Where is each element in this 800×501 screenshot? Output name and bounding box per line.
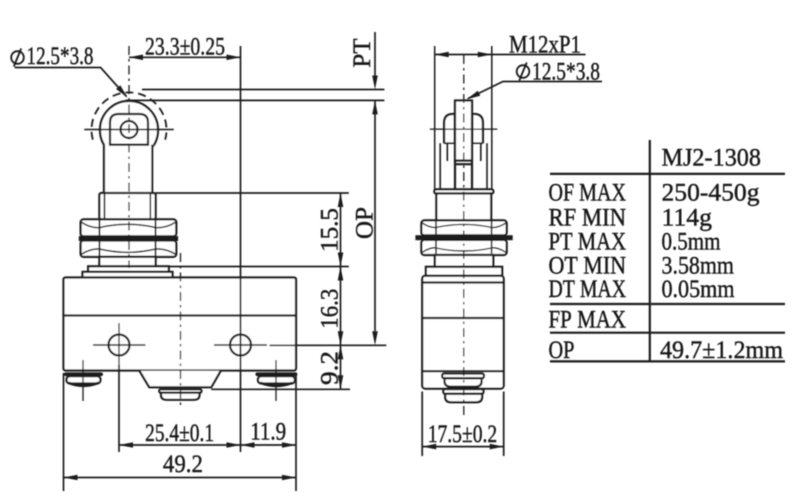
arrowheads dim 49.2 xyxy=(64,475,78,481)
mid view: washer xyxy=(415,235,512,240)
mid view: vertical centerline xyxy=(463,55,465,417)
left view: washer xyxy=(79,236,178,241)
svg-text:OF MAX: OF MAX xyxy=(549,180,627,207)
arrowhead leader phi12.5 mid xyxy=(467,91,481,100)
arrowheads dim 15.5 / 16.3 xyxy=(338,193,344,207)
mid view: housing ear left xyxy=(444,114,455,143)
left view: body/button vertical centerline xyxy=(180,253,182,407)
mid view: bushing block xyxy=(436,194,491,221)
left view: mounting hole left xyxy=(109,335,130,356)
mid view: thread minor diameter lines xyxy=(440,143,487,189)
left view: plunger shaft mask xyxy=(103,145,154,195)
PT upper reference line xyxy=(142,89,384,91)
left view: switch body xyxy=(64,278,297,371)
left view: hole centerline left vertical xyxy=(118,323,120,367)
svg-text:DT MAX: DT MAX xyxy=(549,276,627,303)
svg-text:MJ2-1308: MJ2-1308 xyxy=(662,145,762,172)
mid view: housing ear right xyxy=(472,114,483,143)
svg-text:RF MIN: RF MIN xyxy=(549,205,627,232)
label phi 12.5*3.8 mid: diameter symbol xyxy=(517,63,530,81)
mid view: bottom button flange xyxy=(443,389,483,394)
mid view: side screw cup xyxy=(445,378,482,386)
mid view: roller bar xyxy=(455,101,472,161)
dim line 17.5 xyxy=(422,446,504,448)
arrowheads dim 23.3 xyxy=(129,55,143,61)
leader line phi12.5 left xyxy=(15,68,127,97)
left view: bottom trapezoid boss xyxy=(139,371,220,388)
left view: bottom screw left flange xyxy=(64,372,103,376)
arrowheads dim PT and OP xyxy=(372,76,378,90)
arrowheads dim 16.3 / 9.2 xyxy=(338,331,344,345)
PT dimension vertical line xyxy=(374,32,376,76)
svg-text:16.3: 16.3 xyxy=(317,289,344,329)
svg-text:23.3±0.25: 23.3±0.25 xyxy=(145,34,225,61)
left view: base plate lower step xyxy=(83,272,173,278)
left view: roller circle xyxy=(100,101,158,159)
mid view: bushing flange xyxy=(434,189,493,193)
svg-text:0.5mm: 0.5mm xyxy=(662,229,721,256)
left view: hex nut upper xyxy=(81,219,177,236)
left view: hex nut lower xyxy=(81,241,177,257)
mid view: plunger guide lines xyxy=(447,143,481,161)
svg-text:25.4±0.1: 25.4±0.1 xyxy=(145,420,214,447)
ref line 15.5 top xyxy=(156,192,349,194)
svg-text:114g: 114g xyxy=(662,205,713,232)
dim M12 line and leader underline xyxy=(435,54,586,56)
left view: body seam line xyxy=(64,314,297,316)
svg-text:49.2: 49.2 xyxy=(163,451,203,478)
left view: bottom screw right flange xyxy=(255,372,297,376)
svg-text:12.5*3.8: 12.5*3.8 xyxy=(27,43,94,70)
table: horizontal rule 3 xyxy=(550,332,785,334)
left view: bushing block xyxy=(99,193,155,219)
left view: mounting hole right xyxy=(230,335,251,356)
OP dimension vertical line xyxy=(374,100,376,331)
dim line 25.4 / 11.9 xyxy=(119,444,296,446)
table: horizontal rule 4 xyxy=(550,360,785,362)
left view: screw centerline right xyxy=(275,360,277,401)
svg-text:12.5*3.8: 12.5*3.8 xyxy=(532,59,600,86)
arrowheads dim 17.5 xyxy=(422,444,436,450)
mid view: side screw flange xyxy=(442,374,484,379)
leader line phi12.5 mid xyxy=(468,82,602,99)
dim line 49.2 xyxy=(64,477,297,479)
ref line 15.5 bottom / 16.3 top xyxy=(169,266,349,268)
mid view: switch body side xyxy=(422,276,504,389)
left view: screw centerline left xyxy=(82,360,84,401)
svg-text:11.9: 11.9 xyxy=(250,419,286,446)
mid view: hex nut lower xyxy=(421,240,506,255)
left view: bottom button flange xyxy=(159,389,201,392)
mid view: base flange xyxy=(426,267,502,276)
right body extension line xyxy=(295,373,297,491)
svg-text:PT MAX: PT MAX xyxy=(549,229,627,256)
arrowheads dim 25.4 / 11.9 xyxy=(119,442,133,448)
mid view: collar xyxy=(435,255,493,267)
table: column divider xyxy=(649,140,651,361)
svg-text:9.2: 9.2 xyxy=(317,351,344,385)
left view: plunger vertical centerline xyxy=(128,46,130,268)
dim 17.5 extensions xyxy=(422,392,504,457)
dim 25.4 left extension xyxy=(118,365,120,452)
left body extension line xyxy=(63,373,65,491)
left view: roller housing xyxy=(110,114,148,145)
mid view: horizontal centerline xyxy=(430,128,498,130)
arrowheads dim M12xP1 xyxy=(435,52,449,58)
left view: base plate upper step xyxy=(88,266,169,272)
left view: plunger shaft xyxy=(104,145,152,193)
dim line 9.2 xyxy=(340,345,342,389)
dim 23.3 line xyxy=(129,56,241,58)
left view: bottom screw left cup xyxy=(67,376,101,383)
svg-text:OP: OP xyxy=(549,337,575,364)
left view: bottom button cup xyxy=(161,393,200,400)
svg-text:PT: PT xyxy=(349,38,376,67)
left view: bottom screw right cup xyxy=(258,376,295,383)
arrowhead leader phi12.5 left xyxy=(116,85,127,97)
table: horizontal rule 1 xyxy=(550,173,785,175)
svg-text:0.05mm: 0.05mm xyxy=(662,276,735,303)
svg-text:15.5: 15.5 xyxy=(317,208,344,252)
svg-text:FP MAX: FP MAX xyxy=(549,307,627,334)
mid view: bottom button cup xyxy=(445,394,482,402)
dim line 15.5/16.3 xyxy=(340,193,342,345)
mid view: M12 extension lines / thread major diameter xyxy=(435,46,492,189)
mid view: hex nut upper xyxy=(421,220,506,235)
ref line OP bottom / hole axis xyxy=(270,344,387,346)
dim 23.3 right extension line xyxy=(240,46,242,452)
left view: collar xyxy=(99,257,155,266)
left view: roller pin xyxy=(121,121,138,138)
left view: roller dashed arc (free position) xyxy=(92,92,167,139)
ref line 9.2 bottom xyxy=(211,388,350,390)
left view: pin horizontal centerline xyxy=(84,129,174,131)
label phi 12.5*3.8 left: diameter symbol xyxy=(11,49,24,67)
svg-text:49.7±1.2mm: 49.7±1.2mm xyxy=(660,337,784,364)
svg-text:M12xP1: M12xP1 xyxy=(509,32,581,59)
table: horizontal rule 2 xyxy=(550,303,785,305)
svg-text:17.5±0.2: 17.5±0.2 xyxy=(428,421,498,448)
svg-text:OP: OP xyxy=(352,207,379,239)
PT lower reference line xyxy=(126,99,384,101)
mid view: ear bottom steps xyxy=(444,142,483,144)
svg-text:250-450g: 250-450g xyxy=(662,180,761,207)
